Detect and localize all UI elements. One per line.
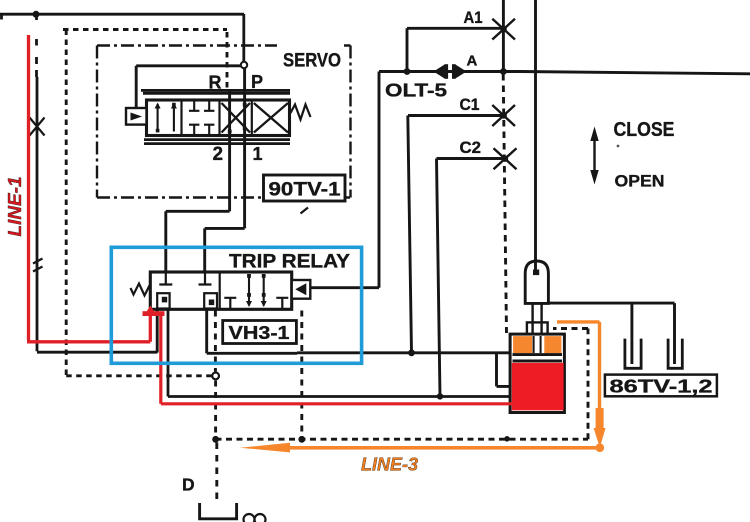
tank 86TV-1 [625,339,641,369]
wire: A1 branch [407,28,503,71]
svg-text:2: 2 [213,144,224,165]
junction dot (215.5,439.3) [212,436,219,443]
label box 86TV-1,2 [605,375,717,397]
annotation LINE-3 orange trace from cylinder [557,322,600,410]
servo valve section 1: parallel flow arrows [155,103,177,133]
svg-text:OPEN: OPEN [615,172,665,191]
svg-text:VH3-1: VH3-1 [229,323,290,343]
close/open double arrow [590,127,598,185]
wire: trip relay port to cylinder (bottom) [168,309,513,397]
svg-text:C2: C2 [460,139,482,157]
valve C1 (X symbol) [492,105,515,126]
bulb terminal dot [533,270,539,276]
svg-text:A1: A1 [464,9,483,27]
svg-text:LINE-3: LINE-3 [361,455,418,475]
wire: riser from top x=535.5 to actuator bulb [534,0,537,270]
junction dot node A-left (407,71.5) [404,68,411,75]
enclosure: SERVO dash-dot box [97,46,351,198]
label box VH3-1 [223,321,297,344]
drain line: VH3-1 left port (dashed) [214,311,217,372]
drain line: OLT riser dashed x=503 [503,74,506,333]
artifact tick near 90TV-1 [301,208,309,214]
junction dot (440,396.5) [437,393,443,399]
svg-text:SERVO: SERVO [283,51,341,72]
tank 86TV-2 [668,339,682,369]
check valve pair A (back-to-back triangles) [434,64,467,79]
trip relay right section bottom T ports [224,298,288,310]
svg-text:OLT-5: OLT-5 [385,80,447,101]
wire: cylinder head-side bracket [497,353,511,387]
svg-text:C1: C1 [460,96,480,114]
valve: isolation X on left supply line [30,118,45,136]
servo torque motor box [126,108,147,125]
svg-text:LINE-1: LINE-1 [5,177,25,237]
trip relay pilot triangle [295,283,306,295]
artifact dot [617,145,620,148]
valve A1 (X symbol) [492,19,515,40]
svg-text:R: R [209,73,222,93]
wire: trip relay pilot line to OLT-5 [310,72,379,288]
node: drain tee circle (215.5,376) [212,373,219,380]
annotation blue highlight box (trip relay) [111,247,361,363]
svg-text:P: P [251,72,263,92]
trip relay port box plugs [162,297,214,305]
junction dot node A-right (503.5,71.5) [500,68,507,75]
svg-text:A: A [467,53,478,70]
wire: left supply drop x=36 (faded dashes at top) [37,14,158,352]
servo valve section dividers [182,100,252,136]
trip relay valve VH3-1 body [150,272,291,309]
wire: P line through valve to trip relay [205,63,245,272]
drain line: VH3-1 right port (dashed) [300,311,303,437]
wire: top supply line y=14 [0,14,244,20]
junction dot (302,439.3) [298,436,305,443]
tank D [200,503,237,519]
wire: pilot line to servo torque motor [136,66,241,108]
wire: piston feed line y=352.8 [297,351,510,354]
cylinder gland blocks (orange) [513,336,561,353]
annotation red arrow into trip relay port [143,306,165,317]
wire: R line through valve to trip relay [166,90,230,272]
wire: R/P rails above servo valve [141,90,290,93]
wire: C2 drop to junction [437,159,441,397]
label box 90TV-1 [264,175,346,201]
cylinder lower chamber (red annotation fill) [512,363,564,411]
enclosure: outer dashed boundary box [63,30,227,376]
actuator cylinder 86TV body [510,334,564,412]
trip relay right section: flow arrows down [246,274,267,307]
annotation red trace to cylinder [161,316,514,404]
wire: R return to left rail [156,309,159,353]
annotation LINE-1 red supply trace [27,35,150,342]
junction dot (507,438.8) [504,436,510,442]
svg-text:90TV-1: 90TV-1 [269,180,342,201]
servo valve return spring [291,105,311,120]
wire: C1 branch [408,114,504,117]
stem coupling box [527,322,548,335]
wire: P drop from top to pilot node [242,14,245,62]
drain line: circle to header (dashed) [214,381,217,436]
annotation LINE-3 return line with left arrow [240,443,604,453]
wire: riser from top x=503.5 [502,0,505,72]
port dots on servo valve [228,103,247,134]
servo valve 90TV-1 body [147,100,290,136]
wire: OLT-5 header line y=71.5 [379,72,750,74]
VH3-1 outer box (left+bottom) [207,309,297,353]
svg-text:86TV-1,2: 86TV-1,2 [610,376,713,397]
node: pilot junction circle (244,65) [241,62,247,68]
wire tail inside bulb [534,259,537,270]
trip relay left section top T ports [159,272,211,285]
svg-text:CLOSE: CLOSE [614,118,675,141]
trip relay divider [219,272,221,309]
junction: supply tap (36,14) [33,11,40,18]
break marks on left supply line [33,259,43,272]
actuator pilot bulb [525,261,548,303]
orange arrowhead down [594,408,606,452]
trip relay pilot actuator box [292,280,311,299]
wire: rails below servo valve [144,140,290,144]
trip relay left section bottom port boxes [157,293,217,308]
junction dot (411.5,352.8) [408,349,415,356]
trip relay spring [131,284,151,296]
servo valve section 4: crossed flow [254,103,288,133]
servo valve section 2: blocked centre T symbols [189,100,214,136]
wire: C1 drop to cylinder feed [408,116,412,353]
wire: C2 branch [437,157,505,160]
svg-text:1: 1 [253,144,263,164]
svg-text:TRIP RELAY: TRIP RELAY [229,251,350,273]
valve stem [533,303,542,336]
valve C2 (X symbol) [494,148,517,169]
wire: bulb to 86TV tanks [548,303,674,364]
piston plate [513,355,563,361]
servo valve section 3: crossed flow [222,103,251,133]
drain header: bottom dashed return line [216,329,589,440]
servo torque motor symbol [131,113,143,121]
stem through cylinder [534,336,541,353]
svg-text:D: D [182,475,195,495]
artifact circles bottom [244,514,266,522]
drain line: to tank D (dashed) [215,443,218,502]
